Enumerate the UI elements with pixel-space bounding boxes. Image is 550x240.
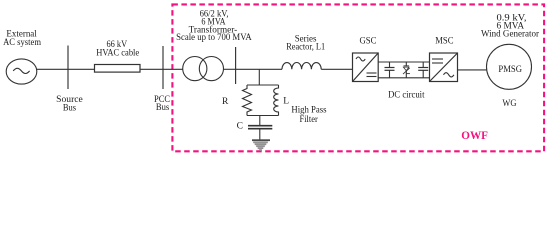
wire — [140, 68, 163, 70]
svg-text:L: L — [283, 97, 289, 107]
wire — [247, 115, 279, 117]
wire — [259, 129, 261, 140]
bus Source Bus — [67, 46, 69, 90]
generator PMSG — [487, 44, 532, 89]
wire — [378, 61, 429, 63]
wire — [258, 69, 260, 85]
svg-text:Bus: Bus — [156, 103, 170, 113]
inductor L — [274, 85, 279, 116]
svg-text:R: R — [222, 97, 229, 107]
capacitor C2 DC link — [418, 62, 428, 78]
HVAC cable — [95, 65, 141, 73]
bus PCC Bus — [162, 46, 164, 89]
wire — [37, 68, 68, 70]
label High Pass Filter — [291, 106, 326, 126]
label 66 kV HVAC cable — [96, 40, 139, 58]
ground — [252, 139, 270, 151]
wire — [68, 68, 95, 70]
svg-text:MSC: MSC — [435, 36, 453, 46]
wire — [236, 68, 282, 70]
svg-text:C: C — [237, 121, 243, 131]
label 0.9 kV, 6 MVA Wind Generator — [481, 13, 540, 39]
wire — [378, 77, 429, 79]
OWF boundary — [172, 4, 544, 151]
wire — [247, 84, 279, 86]
svg-text:WG: WG — [502, 99, 516, 109]
svg-text:HVAC cable: HVAC cable — [96, 48, 139, 58]
label transformer — [176, 9, 252, 43]
svg-text:Filter: Filter — [300, 115, 319, 125]
svg-text:OWF: OWF — [461, 130, 488, 142]
chopper diode D1 — [403, 62, 410, 78]
svg-text:Bus: Bus — [63, 103, 76, 113]
svg-text:GSC: GSC — [360, 37, 377, 47]
label Series Reactor, L1 — [286, 34, 325, 52]
svg-text:High Pass: High Pass — [291, 106, 326, 116]
inductor L1 series reactor — [282, 62, 321, 69]
svg-text:PMSG: PMSG — [498, 65, 522, 75]
wire — [458, 69, 487, 71]
svg-text:Wind Generator: Wind Generator — [481, 29, 540, 39]
resistor R — [243, 85, 252, 116]
wire — [321, 68, 352, 70]
capacitor C — [248, 126, 272, 129]
transformer T1 — [183, 57, 224, 81]
svg-text:DC circuit: DC circuit — [388, 90, 425, 100]
wire — [224, 68, 236, 70]
svg-text:Reactor, L1: Reactor, L1 — [286, 43, 325, 53]
svg-text:Scale up to 700 MVA: Scale up to 700 MVA — [176, 33, 252, 43]
capacitor C1 DC link — [385, 62, 395, 78]
converter MSC — [430, 53, 458, 82]
bus LV bus — [235, 47, 237, 84]
wire — [259, 116, 261, 126]
label PCC Bus — [154, 95, 170, 113]
converter GSC — [353, 53, 379, 82]
external AC source G1 — [6, 59, 37, 84]
label Source Bus — [56, 95, 83, 113]
wire — [163, 68, 183, 70]
label External AC system — [3, 29, 41, 48]
svg-text:AC system: AC system — [3, 38, 41, 48]
